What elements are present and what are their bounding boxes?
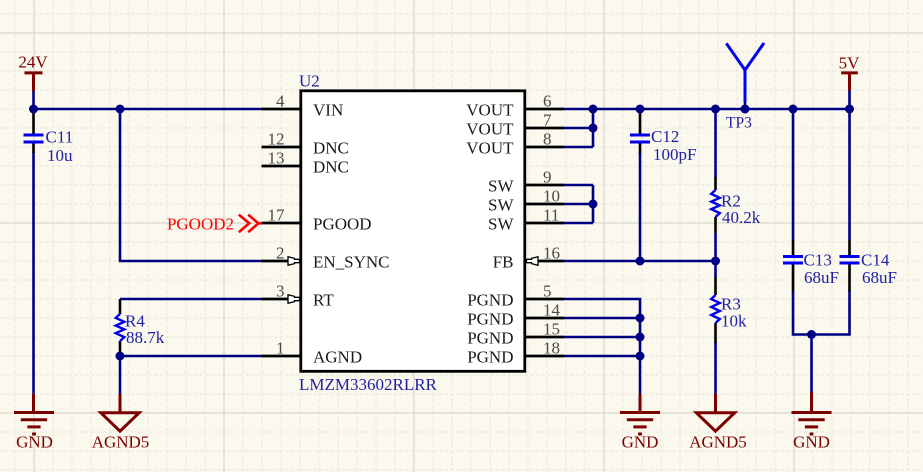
svg-text:C11: C11 [46,128,74,147]
svg-text:VOUT: VOUT [466,139,514,158]
svg-text:10u: 10u [47,146,73,165]
svg-text:GND: GND [16,433,53,452]
svg-text:VOUT: VOUT [466,120,514,139]
svg-text:U2: U2 [299,72,320,91]
svg-text:100pF: 100pF [653,145,696,164]
svg-text:PGND: PGND [467,310,513,329]
svg-text:15: 15 [543,320,560,339]
svg-text:EN_SYNC: EN_SYNC [313,253,390,272]
svg-text:8: 8 [543,130,552,149]
svg-text:17: 17 [268,206,286,225]
svg-text:DNC: DNC [313,139,349,158]
svg-text:4: 4 [276,92,285,111]
svg-text:AGND5: AGND5 [689,433,747,452]
svg-text:SW: SW [488,215,514,234]
svg-text:DNC: DNC [313,158,349,177]
svg-text:13: 13 [268,149,285,168]
svg-text:88.7k: 88.7k [126,328,165,347]
svg-text:7: 7 [543,111,552,130]
svg-text:PGND: PGND [467,329,513,348]
svg-text:C12: C12 [651,127,679,146]
svg-text:FB: FB [493,253,514,272]
svg-text:PGOOD2: PGOOD2 [167,215,234,234]
svg-text:GND: GND [793,433,830,452]
svg-text:C14: C14 [861,251,890,270]
svg-text:24V: 24V [18,53,48,72]
svg-text:GND: GND [622,433,659,452]
svg-text:RT: RT [313,291,334,310]
svg-text:1: 1 [276,339,285,358]
svg-text:3: 3 [276,282,285,301]
svg-text:5: 5 [543,282,552,301]
svg-text:68uF: 68uF [804,268,839,287]
svg-text:PGOOD: PGOOD [313,215,372,234]
svg-text:PGND: PGND [467,348,513,367]
svg-text:18: 18 [543,339,560,358]
svg-text:SW: SW [488,177,514,196]
svg-text:10: 10 [543,187,560,206]
svg-text:C13: C13 [804,251,832,270]
svg-text:11: 11 [543,206,559,225]
svg-text:VIN: VIN [313,101,343,120]
svg-text:AGND: AGND [313,348,362,367]
svg-text:40.2k: 40.2k [722,208,761,227]
svg-text:12: 12 [268,130,285,149]
svg-text:16: 16 [543,244,560,263]
svg-text:5V: 5V [839,54,861,73]
svg-text:LMZM33602RLRR: LMZM33602RLRR [299,375,438,394]
svg-text:VOUT: VOUT [466,101,514,120]
svg-text:6: 6 [543,92,552,111]
svg-text:PGND: PGND [467,291,513,310]
svg-text:9: 9 [543,168,552,187]
svg-text:2: 2 [276,244,285,263]
svg-text:TP3: TP3 [726,115,752,132]
svg-text:68uF: 68uF [862,268,897,287]
svg-text:AGND5: AGND5 [92,433,150,452]
svg-text:SW: SW [488,196,514,215]
svg-text:14: 14 [543,301,561,320]
svg-text:10k: 10k [721,312,747,331]
